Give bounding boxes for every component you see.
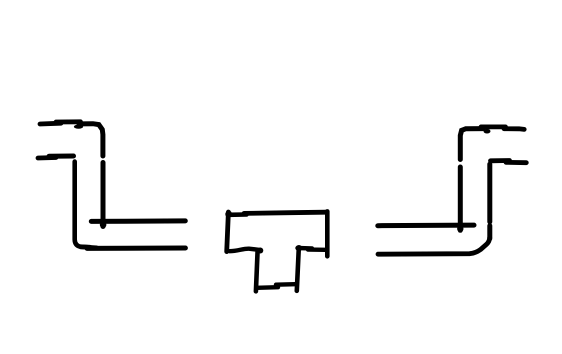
right pipe: inner vertical upper segment with top elbow bbox=[460, 129, 483, 160]
left pipe: second horizontal stroke 1 bbox=[38, 155, 56, 160]
left pipe: outer vertical with bottom elbow bbox=[75, 162, 90, 248]
right pipe: outer vertical lower segment bbox=[487, 226, 492, 239]
tee fitting: top bar bbox=[229, 212, 247, 217]
tee fitting: blob at left-arm / stem junction bbox=[257, 248, 263, 254]
left pipe: second horizontal stroke 2 bbox=[49, 154, 74, 159]
left pipe: dab blob under top horizontal junction bbox=[74, 125, 83, 129]
tee fitting: blob at top-left junction bbox=[225, 211, 232, 218]
tee fitting: stem bottom stroke 1 bbox=[257, 285, 278, 290]
tee fitting: right arm bottom stroke 2 bbox=[308, 247, 325, 252]
left pipe: inner bottom horizontal bbox=[91, 218, 185, 224]
right pipe: dab blob under top horizontal junction bbox=[484, 129, 491, 134]
right pipe: top horizontal stroke 2 bbox=[504, 126, 524, 131]
tee fitting: right arm bottom stroke 1 bbox=[298, 246, 313, 251]
tee fitting: left outer vertical bbox=[227, 212, 229, 252]
tee fitting: stem right vertical bbox=[297, 248, 299, 291]
left pipe: blob at inner vertical bottom end bbox=[100, 222, 107, 229]
tee fitting: left arm bottom horizontal bbox=[230, 249, 261, 252]
left pipe: top elbow corner into inner vertical bbox=[79, 124, 103, 156]
right pipe: second horizontal stroke 1 bbox=[491, 158, 510, 163]
right pipe: blob at inner vertical bottom end bbox=[457, 226, 463, 232]
left pipe: short overlap stroke at bottom elbow bbox=[81, 247, 97, 248]
right pipe: outer vertical upper segment bbox=[487, 164, 492, 222]
left pipe: top inner horizontal stroke 1 bbox=[40, 121, 61, 127]
left pipe: top inner horizontal stroke 2 bbox=[56, 119, 81, 124]
right pipe: second horizontal stroke 2 bbox=[506, 160, 526, 165]
tee fitting: stem bottom stroke 2 bbox=[276, 282, 295, 287]
left pipe: inner vertical lower segment (after gap) bbox=[101, 163, 106, 227]
right pipe: top horizontal stroke 1 bbox=[481, 125, 506, 130]
left pipe: outer bottom horizontal bbox=[87, 246, 185, 251]
tee fitting: right outer vertical bbox=[325, 211, 330, 256]
right pipe: lower bottom horizontal with elbow up bbox=[378, 238, 490, 255]
tee fitting: top bar main stroke bbox=[244, 212, 326, 213]
right pipe: inner vertical lower segment bbox=[458, 167, 463, 230]
tee fitting: stem left vertical bbox=[256, 251, 258, 292]
tee fitting: blob at right-arm / stem junction bbox=[296, 245, 302, 251]
right pipe: upper bottom horizontal bbox=[378, 223, 474, 229]
